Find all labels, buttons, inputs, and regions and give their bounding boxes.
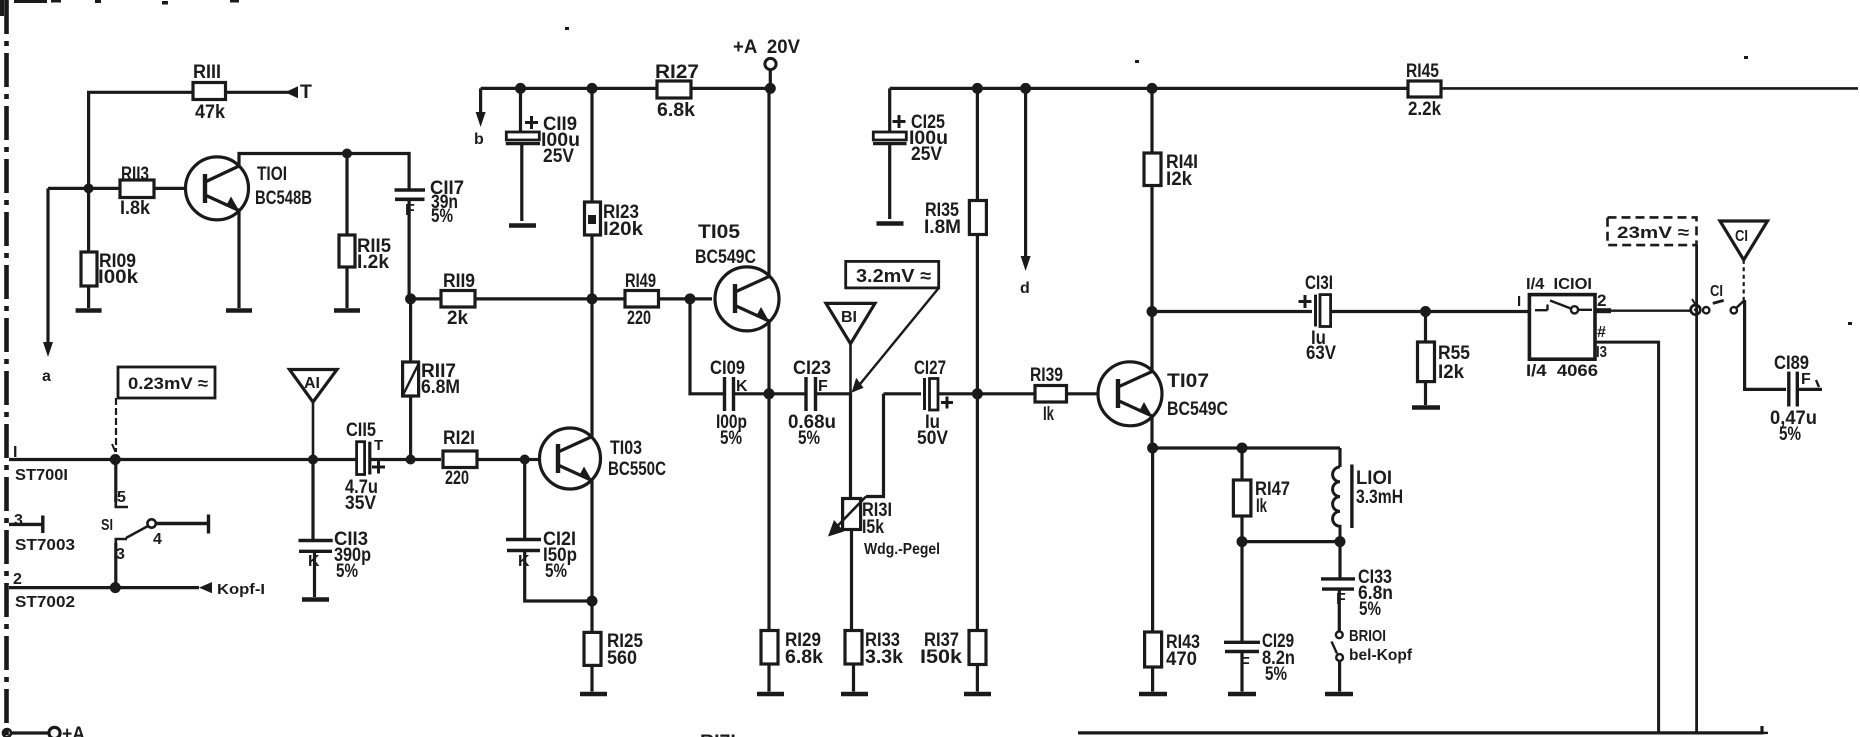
wire T107 emitter down to node (1150, 416, 1153, 448)
pointer line from 23mV box down through node to bottom (1692, 245, 1697, 733)
capacitor C115 electrolytic (357, 442, 441, 475)
arrowhead a (43, 342, 53, 357)
svg-text:F: F (1240, 655, 1250, 672)
capacitor C133 (1321, 542, 1355, 631)
inductor L101 (1333, 465, 1352, 542)
ground below R109 (76, 308, 102, 313)
svg-text:5%: 5% (1359, 598, 1381, 620)
wire down to arrow a (46, 188, 49, 348)
svg-text:T: T (300, 81, 312, 103)
svg-text:BC549C: BC549C (1167, 398, 1228, 420)
plus sign of C115 (372, 461, 385, 474)
svg-text:23mV ≈: 23mV ≈ (1617, 223, 1689, 242)
svg-text:2k: 2k (447, 307, 468, 329)
node R55 (1420, 306, 1431, 317)
svg-text:CI09: CI09 (710, 357, 745, 379)
svg-text:I3: I3 (1596, 344, 1607, 361)
ground below T101 (226, 308, 252, 313)
wire junction to C123 (769, 392, 805, 395)
wire junction to R139 (977, 392, 1035, 395)
svg-text:470: 470 (1166, 648, 1197, 670)
svg-text:ST7002: ST7002 (15, 594, 75, 611)
svg-text:50V: 50V (917, 427, 948, 449)
resistor R113 (120, 180, 154, 198)
resistor R141 (1144, 88, 1161, 311)
wire power rail left segment (481, 87, 771, 90)
svg-text:CI27: CI27 (914, 357, 946, 379)
capacitor C131 electrolytic (1316, 295, 1421, 327)
svg-text:3.2mV ≈: 3.2mV ≈ (856, 265, 931, 286)
capacitor C123 (806, 377, 851, 411)
test point triangle A1 (290, 370, 338, 460)
wire T101 collector to C117 corner (239, 154, 409, 190)
svg-text:Ik: Ik (1256, 495, 1267, 517)
svg-text:a: a (42, 368, 51, 385)
wire emitter row to L101 (1153, 448, 1340, 467)
wire collector node to C131 (1152, 310, 1312, 313)
svg-text:220: 220 (627, 307, 651, 329)
contact switch C1 (1703, 300, 1745, 313)
node R123 rail (587, 83, 598, 94)
svg-text:d: d (1020, 280, 1030, 297)
node +A rail (765, 83, 776, 94)
wire S1 to ST7002 line (114, 543, 117, 588)
svg-text:TIOI: TIOI (257, 163, 287, 185)
node T105 base (685, 293, 696, 304)
node collector/R115 (342, 149, 352, 159)
emitter arrow T107 (1139, 402, 1152, 416)
svg-text:RI39: RI39 (1030, 364, 1063, 386)
wire T101 emitter to ground (237, 211, 240, 309)
tick mark after C189 F (1816, 380, 1819, 387)
svg-text:Ik: Ik (1043, 403, 1054, 425)
svg-text:K: K (736, 378, 748, 395)
svg-text:Wdg.-Pegel: Wdg.-Pegel (864, 541, 940, 558)
resistor R55 (1418, 312, 1435, 406)
node T103 base / C121 (520, 455, 530, 465)
svg-text:I50k: I50k (920, 646, 962, 668)
arrowhead T (points left) (285, 86, 298, 98)
svg-text:K: K (308, 553, 320, 570)
svg-text:6.8k: 6.8k (785, 646, 823, 668)
svg-text:TI05: TI05 (698, 221, 740, 243)
svg-text:BC550C: BC550C (608, 458, 666, 480)
svg-text:CI3I: CI3I (1305, 272, 1333, 294)
transistor T107 (1098, 362, 1162, 426)
ground below R125 (580, 692, 607, 697)
pointer line from 0.23mV box to node (112, 398, 116, 452)
wire node a to R111 row and down to R113 node (48, 92, 296, 188)
wire T103 collector up to R123 node (590, 299, 593, 437)
node R123/T103 collector (587, 293, 598, 304)
svg-text:63V: 63V (1306, 342, 1336, 364)
ground below R115 (334, 308, 360, 313)
resistor R115 (339, 154, 355, 309)
svg-text:2.2k: 2.2k (1408, 98, 1441, 120)
node R141 rail (1147, 83, 1158, 94)
svg-text:CI: CI (1735, 228, 1748, 245)
arrowhead of R131 wiper (828, 520, 844, 537)
svg-text:5%: 5% (545, 560, 567, 582)
resistor R119 (411, 291, 587, 308)
svg-text:5%: 5% (1779, 423, 1801, 445)
ground below BR101 (1325, 692, 1353, 697)
svg-text:TI07: TI07 (1167, 370, 1209, 392)
wire C1 contact down to C189 (1745, 300, 1786, 389)
resistor R133 (845, 631, 862, 692)
svg-text:I2k: I2k (1438, 361, 1464, 383)
svg-text:2: 2 (13, 571, 22, 588)
svg-text:I2k: I2k (1166, 168, 1192, 190)
switch S1 contact 3 (116, 539, 127, 545)
emitter arrow T101 (226, 197, 239, 211)
svg-text:b: b (474, 131, 484, 148)
node R147 bottom (1237, 536, 1248, 547)
arrow d from rail (1024, 88, 1027, 262)
arrowhead Kopf-1 (199, 582, 212, 593)
svg-text:I.2k: I.2k (357, 251, 389, 273)
svg-text:I: I (1517, 293, 1521, 310)
node T107 collector / C131 (1147, 306, 1158, 317)
svg-text:RI49: RI49 (625, 270, 656, 292)
arrow b from rail (479, 88, 482, 118)
plus sign of C127 (941, 397, 953, 409)
resistor R145 on rail (1408, 81, 1858, 97)
svg-text:0.23mV ≈: 0.23mV ≈ (128, 374, 208, 393)
svg-text:220: 220 (445, 467, 469, 489)
svg-text:RI45: RI45 (1406, 60, 1439, 82)
svg-text:+A: +A (62, 723, 85, 737)
svg-text:I5k: I5k (862, 516, 884, 538)
svg-text:BC548B: BC548B (255, 187, 312, 209)
resistor R139 (1035, 386, 1098, 403)
wire B1 junction through to C127 tap (851, 393, 884, 499)
node emitter/C121/R125 (587, 596, 598, 607)
ground below C113 (302, 597, 329, 602)
svg-text:SI: SI (101, 517, 113, 534)
resistor R135 (969, 88, 986, 630)
resistor R129 (761, 394, 778, 692)
contact switch BR101 (1332, 631, 1344, 691)
wire T105 collector to rail (767, 88, 770, 276)
svg-text:RI2I: RI2I (443, 427, 475, 449)
resistor R111 (193, 83, 226, 100)
svg-text:AI: AI (304, 375, 320, 392)
node S1 bottom (110, 582, 121, 593)
emitter arrow T105 (756, 307, 769, 321)
svg-text:2: 2 (1597, 291, 1606, 310)
node C127/R135 junction (972, 388, 983, 399)
emitter arrow T103 (579, 467, 592, 481)
wire junction to C127 (884, 392, 922, 395)
plus sign of C125 (893, 115, 906, 128)
border dash-dot frame left edge (4, 0, 9, 737)
pointer diagonal from 3.2mV box to junction (856, 288, 939, 389)
ground below C119 (509, 223, 536, 228)
ground below C125 (877, 221, 904, 226)
svg-text:5%: 5% (798, 427, 820, 449)
terminal +A bottom left (3, 727, 60, 737)
resistor R143 (1145, 448, 1162, 692)
resistor R117 trimmer (403, 299, 419, 460)
plus sign of C119 (525, 116, 538, 129)
test point triangle B1 (826, 303, 875, 392)
svg-text:CII5: CII5 (346, 419, 376, 441)
svg-text:+A 20V: +A 20V (733, 36, 800, 58)
node C119 rail (515, 83, 526, 94)
arrowhead of 3.2mV pointer (852, 378, 864, 393)
resistor R109 (81, 188, 97, 308)
switch S1 lever and contact 4 (126, 515, 209, 539)
wire base T103 (525, 458, 540, 461)
node L101 bottom (1335, 536, 1346, 547)
node emitter/R143 (1147, 443, 1158, 454)
transistor T101 (186, 157, 249, 220)
svg-text:BI: BI (841, 309, 857, 326)
wire T103 emitter down to R125 (590, 481, 593, 602)
ground below R129 (757, 692, 784, 697)
analog switch IC101 (1529, 295, 1595, 360)
svg-text:I.8k: I.8k (120, 197, 150, 219)
pin stub 2 thick (1595, 308, 1611, 313)
ground below R133 (841, 692, 868, 697)
wire T107 collector up (1150, 312, 1153, 372)
resistor R149 (592, 291, 712, 308)
wire R113 to T101 base (154, 187, 186, 190)
capacitor C117 (395, 190, 426, 299)
svg-text:3.3mH: 3.3mH (1356, 486, 1403, 508)
plus sign of C131 (1299, 295, 1312, 308)
svg-text:ST7003: ST7003 (15, 537, 75, 554)
svg-text:ST700I: ST700I (15, 467, 68, 484)
resistor R121 (443, 451, 520, 468)
svg-text:6.8M: 6.8M (421, 376, 460, 398)
ground below R137 (964, 692, 991, 697)
svg-text:RII9: RII9 (443, 270, 475, 292)
measurement box 0.23mV (118, 367, 215, 398)
wire pin2 to node (1611, 310, 1691, 312)
circled node pin2/23mV (1691, 305, 1701, 315)
rail right segment with C125 (890, 88, 1408, 132)
border top edge cut-off marks (0, 0, 1852, 325)
measurement box 3.2mV (846, 261, 939, 288)
svg-text:CI: CI (1710, 283, 1723, 300)
node junction R113/R109 (84, 183, 94, 193)
wire R147 bottom row to L101 bottom (1242, 540, 1340, 543)
resistor R123 (585, 88, 601, 299)
transistor T103 (540, 428, 601, 489)
node R135 rail (972, 83, 983, 94)
wire node to IC101 (1426, 310, 1530, 313)
capacitor C121 (506, 460, 592, 602)
ground below C129 (1228, 692, 1256, 697)
svg-text:5%: 5% (336, 560, 358, 582)
wire ST7002 line to Kopf arrow (9, 586, 199, 589)
svg-text:RI27: RI27 (655, 61, 699, 83)
svg-text:#: # (1597, 324, 1606, 341)
capacitor C127 electrolytic (925, 378, 973, 410)
svg-text:3: 3 (14, 512, 23, 529)
test point triangle C1 (1720, 221, 1768, 300)
svg-text:BRIOI: BRIOI (1349, 628, 1386, 645)
node R147 top (1237, 443, 1248, 454)
svg-text:F: F (1336, 591, 1346, 608)
capacitor C119 electrolytic (506, 88, 540, 221)
wire pin13 to bottom (1595, 342, 1659, 733)
terminal +A 20V (765, 58, 776, 88)
wire S1 pole down (114, 460, 117, 503)
svg-text:I/4 ICIOI: I/4 ICIOI (1526, 276, 1592, 293)
capacitor C125 electrolytic (873, 132, 907, 219)
measurement box 23mV dashed (1608, 217, 1697, 245)
wire ST7001 input line (9, 458, 356, 461)
resistor R137 (969, 631, 986, 692)
svg-text:I/4 4066: I/4 4066 (1526, 361, 1598, 380)
arrowhead d (1021, 256, 1031, 271)
svg-text:25V: 25V (543, 145, 574, 167)
svg-text:K: K (518, 553, 530, 570)
ground below R55 (1412, 405, 1440, 410)
resistor R127 (657, 81, 691, 98)
svg-text:CI23: CI23 (793, 357, 831, 379)
node R117/R121/C115 junction (406, 455, 416, 465)
node A1/C113 (308, 455, 318, 465)
svg-text:TI03: TI03 (610, 437, 642, 459)
svg-text:F: F (818, 378, 828, 395)
node C117/R117/R119 junction (405, 293, 416, 304)
svg-text:bel-Kopf: bel-Kopf (1349, 647, 1413, 664)
svg-text:25V: 25V (911, 143, 942, 165)
svg-text:4: 4 (153, 531, 162, 548)
capacitor C109 (725, 377, 765, 411)
wire ST7003 stub (9, 516, 43, 534)
wire T105 emitter to C109 junction (767, 321, 770, 394)
svg-text:5%: 5% (431, 205, 453, 227)
svg-text:RIII: RIII (193, 61, 221, 83)
node S1 top (110, 454, 121, 465)
svg-text:560: 560 (607, 647, 637, 669)
resistor R147 (1233, 448, 1251, 542)
potentiometer R131 (836, 497, 866, 631)
svg-text:F: F (405, 202, 415, 219)
capacitor C189 (1789, 372, 1822, 407)
svg-text:I00k: I00k (98, 266, 138, 288)
wire T105 base branch down (690, 299, 724, 394)
switch S1 contact 5 (116, 500, 128, 507)
node d arrow rail (1020, 83, 1031, 94)
capacitor C113 (299, 460, 333, 598)
svg-text:I.8M: I.8M (924, 216, 961, 238)
bottom border line of lower block (1078, 726, 1768, 733)
ground below R143 (1139, 692, 1167, 697)
svg-text:5: 5 (117, 489, 126, 506)
svg-text:6.8k: 6.8k (657, 99, 695, 121)
resistor R125 (584, 601, 601, 692)
svg-text:5%: 5% (720, 427, 742, 449)
svg-text:3.3k: 3.3k (865, 646, 903, 668)
svg-text:RI7I: RI7I (700, 731, 736, 737)
svg-text:I20k: I20k (603, 218, 643, 240)
svg-text:RII3: RII3 (121, 163, 149, 185)
svg-text:CI89: CI89 (1774, 352, 1809, 374)
transistor T105 (715, 267, 779, 331)
svg-text:5%: 5% (1265, 663, 1287, 685)
svg-text:Kopf-I: Kopf-I (217, 581, 265, 598)
arrowhead b (476, 112, 486, 127)
node emitter/C109/C123/R129 (764, 388, 775, 399)
capacitor C129 (1224, 542, 1260, 692)
svg-text:35V: 35V (345, 492, 376, 514)
svg-text:BC549C: BC549C (695, 246, 756, 268)
svg-text:47k: 47k (195, 101, 225, 123)
